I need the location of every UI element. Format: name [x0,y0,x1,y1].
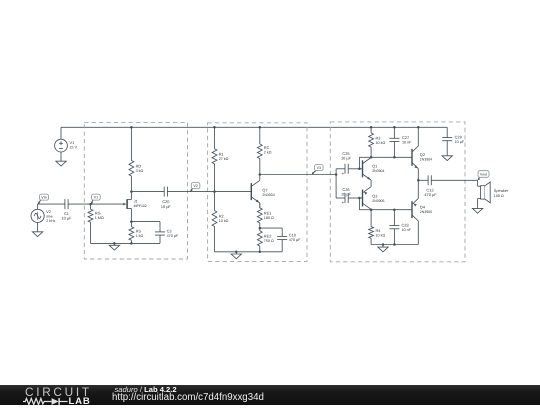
dashed box stage 1 [84,122,187,259]
capacitor C13 [418,175,477,185]
label C27 10 nF [402,135,412,145]
wire Q2 collector [417,127,419,146]
label C10 470 uF [289,233,301,243]
wire stage1 bottom rail [91,242,161,244]
label C29 10 uF [455,134,465,144]
wire Q4 collector [417,221,419,245]
svg-text:470 µF: 470 µF [167,234,179,238]
label RS 1 kOhm [136,229,144,239]
junction dot rail C27 [393,126,396,129]
svg-text:2N3904: 2N3904 [372,169,384,173]
junction dot base [213,190,216,193]
wire Q1 base-collector bend [359,157,371,169]
junction dot R4 bias [370,208,373,211]
svg-text:Q2: Q2 [420,152,425,157]
wire drain to C20 [131,191,164,193]
junction dot rail R3 [370,126,373,129]
svg-text:2 kHz: 2 kHz [46,219,55,223]
resistor R3 [369,127,374,157]
label R2 10 kOhm [219,214,229,224]
resistor RE2 [257,228,262,252]
svg-text:2N3904: 2N3904 [262,193,274,197]
svg-text:27 kΩ: 27 kΩ [219,157,229,161]
label RC 2 kOhm [264,145,272,155]
svg-text:C3: C3 [167,228,172,233]
wire Q7 emitter [259,203,261,208]
svg-text:R3: R3 [376,135,381,140]
wire source junction to C3 [131,221,160,223]
svg-text:C27: C27 [402,135,409,140]
svg-text:1 kΩ: 1 kΩ [136,234,144,238]
label R4 10 kOhm [376,228,386,238]
junction dot RE1 RE2 [259,227,262,230]
junction dot Q1 base bend [358,168,361,171]
svg-text:100 Ω: 100 Ω [494,194,504,198]
dashed box stage 2 [208,123,307,262]
wire stage2 bottom rail [215,251,283,253]
svg-text:750 Ω: 750 Ω [264,239,274,243]
label C13 470 uF [424,188,437,198]
svg-text:V3: V3 [317,166,321,170]
capacitor C3 [155,222,165,244]
svg-text:2 kΩ: 2 kΩ [264,151,272,155]
junction dot C28 bias [393,208,396,211]
label C25 10 uF [341,151,352,161]
junction dot C28 bottom [393,243,396,246]
label R1 27 kOhm [219,151,229,161]
ground under C29 [442,156,452,161]
ground stage 3 [378,245,388,252]
junction dot Q3 base bend [358,197,361,200]
wire Q4 emitter [417,180,419,198]
svg-text:10 kΩ: 10 kΩ [219,219,229,223]
label V1 15 V [70,140,78,150]
junction dot C27 bias [393,156,396,159]
svg-text:2N3904: 2N3904 [420,157,432,161]
wire Q1 base stub [359,168,362,170]
label R3 10 kOhm [376,135,386,145]
transistor Q7 2N3904 [251,180,260,203]
svg-text:C10: C10 [289,233,297,238]
resistor R1 [212,127,217,191]
logo resistor-diode glyph and LAB [23,397,101,406]
resistor RG [88,204,93,243]
label RD 3 kOhm [136,164,144,174]
wire +15V top rail [61,126,447,128]
svg-text:R4: R4 [376,228,382,233]
svg-text:10 nF: 10 nF [402,141,412,145]
junction dot RS bottom [130,242,133,245]
resistor RE1 [257,203,262,228]
junction dot V3 split [335,173,338,176]
node V3 flag [311,165,323,176]
svg-text:180 Ω: 180 Ω [264,216,274,220]
node V1 flag [90,194,100,205]
junction dot RE2 bottom [259,251,262,254]
svg-text:+: + [342,171,345,176]
svg-text:+: + [342,200,345,205]
wire VIn to C1 [38,203,62,205]
svg-text:10 µF: 10 µF [341,192,352,197]
wire V1 source to rail [60,127,62,139]
svg-text:VIn: VIn [41,196,46,200]
svg-text:R1: R1 [219,151,224,156]
label C20 10 uF [161,199,172,209]
wire split down [335,175,337,199]
capacitor C20 [164,187,167,197]
label Q3 2N3906 [372,194,384,204]
node V1a junction dot [89,203,92,206]
resistor R2 [212,192,217,252]
svg-text:10 kΩ: 10 kΩ [376,141,386,145]
label J1 MPF102 [134,198,147,207]
svg-text:C28: C28 [402,222,409,227]
transistor Q3 2N3906 [363,187,372,210]
svg-text:V2: V2 [193,184,197,188]
wire split up [335,169,337,175]
footer bar [0,385,540,406]
junction dot source [130,220,133,223]
label Q2 2N3904 [420,152,432,162]
plus sign C25 [342,171,345,176]
junction dot stage3 gnd [382,243,385,246]
svg-text:10 nF: 10 nF [402,228,412,232]
junction dot rail RC [259,126,262,129]
junction dot stage2 gnd [235,251,238,254]
label RE1 180 Ohm [264,210,274,220]
node VIn flag [37,194,49,205]
svg-text:MPF102: MPF102 [134,204,147,208]
svg-text:C29: C29 [455,134,462,139]
svg-text:Vout: Vout [480,173,487,177]
svg-text:V1: V1 [70,140,75,145]
svg-text:15 V: 15 V [70,146,78,150]
svg-text:10 µF: 10 µF [61,216,72,221]
wire top bias rail [371,156,412,158]
svg-text:RD: RD [136,164,142,169]
label Q4 2N3906 [420,205,432,214]
resistor RC [257,127,262,174]
svg-text:RC: RC [264,145,270,150]
resistor RD [129,127,134,191]
svg-text:470 µF: 470 µF [289,238,301,242]
wire gate [91,203,126,205]
label C3 470 uF [167,228,179,238]
wire bottom bias rail [371,209,412,211]
label V2 sine 2 kHz [46,209,55,223]
node V2 flag [189,183,200,193]
svg-text:J1: J1 [134,198,138,203]
junction dot rail R1 [213,126,216,129]
svg-text:Q7: Q7 [262,187,267,192]
wire Q3 base stub [359,197,362,199]
capacitor C10 [277,228,287,252]
voltage source V2 sine [31,209,44,222]
transistor Q2 2N3904 [412,146,418,169]
jfet J1 MPF102 [123,192,131,222]
label C26 10 uF [341,187,352,197]
svg-text:Q1: Q1 [372,163,377,168]
ground stage 2 [231,252,241,259]
svg-text:V2: V2 [46,209,51,214]
junction dot drain [130,190,133,193]
svg-text:RE2: RE2 [264,234,272,239]
svg-text:1 MΩ: 1 MΩ [95,216,104,220]
wire Q3 collector down [370,208,372,210]
svg-text:RS: RS [136,229,142,234]
wire Q1-Q3 emitters [370,180,372,187]
ground under V1 [56,161,66,166]
svg-text:Q4: Q4 [420,205,426,210]
voltage source V1 15V [55,139,68,152]
svg-text:2N3906: 2N3906 [372,199,384,203]
svg-text:Q3: Q3 [372,194,377,199]
svg-text:Speaker: Speaker [494,188,509,193]
label C28 10 nF [402,222,412,232]
label Q7 2N3904 [262,187,274,197]
plus sign C26 [342,200,345,205]
label C1 10 uF [61,211,72,221]
svg-text:V1: V1 [94,196,98,200]
ground under V2 [32,232,42,237]
junction dot stage1 gnd [113,242,116,245]
wire Q2 emitter [417,169,419,181]
speaker SPK1 [478,180,491,208]
label Q1 2N3904 [372,163,384,173]
ground stage 1 [109,243,119,250]
CircuitLab logo [23,385,113,405]
svg-text:10 kΩ: 10 kΩ [376,234,386,238]
junction dot output [417,179,420,182]
junction dot rail RD [130,126,133,129]
wire V1 to ground [60,152,62,161]
svg-text:3 kΩ: 3 kΩ [136,169,144,173]
capacitor C27 [389,127,399,157]
wire stage3 bottom rail [371,244,418,246]
wire Q3 base-collector bend [359,198,371,210]
svg-text:2N3906: 2N3906 [420,210,432,214]
ground under speaker [472,208,482,213]
wire V2 to ground [37,223,39,232]
capacitor C26 [336,193,359,203]
dashed box stage 3 [330,122,465,262]
wire collector to V3 split [260,174,336,176]
junction dot rail Q2 [417,126,420,129]
svg-text:RE1: RE1 [264,210,272,215]
wire Q1 collector up [370,156,372,158]
wire RE junction to C10 [260,227,282,229]
transistor Q1 2N3904 [363,158,372,181]
svg-text:10 µF: 10 µF [455,140,465,144]
transistor Q4 2N3906 [412,198,418,221]
svg-text:RG: RG [95,211,101,216]
junction dot collector [259,173,262,176]
svg-text:sine: sine [46,215,53,219]
svg-text:R2: R2 [219,214,224,219]
capacitor C25 [336,164,359,174]
svg-text:470 µF: 470 µF [424,192,437,197]
wire Q7 collector [259,175,261,181]
capacitor C28 [389,210,399,245]
resistor RS [129,222,134,244]
capacitor C1 [62,199,91,209]
label RE2 750 Ohm [264,234,274,244]
label Speaker 100 Ohm [494,188,509,198]
label RG 1 MOhm [95,211,104,221]
junction dot R3 bias [370,156,373,159]
svg-text:10 µF: 10 µF [341,155,352,160]
wire C20 to Q7 base [167,191,251,193]
node Vout flag [477,171,489,181]
svg-text:10 µF: 10 µF [161,204,172,209]
wire V2 stub [37,204,39,209]
capacitor C29 [442,127,452,156]
resistor R4 [369,210,374,245]
